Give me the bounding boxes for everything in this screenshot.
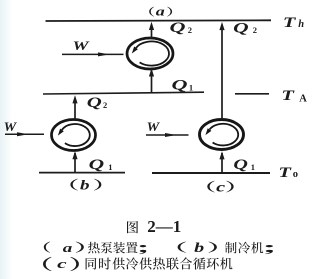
caption paren ( before c: [43, 257, 52, 271]
caption paren ) after a: [76, 242, 84, 253]
caption 热: [153, 257, 165, 269]
label (b) paren right: [94, 179, 101, 191]
caption 图 (figure): [127, 221, 138, 233]
caption 冷: [126, 257, 138, 269]
machine (c) combined heating-cooling cycle circle: [200, 120, 244, 150]
intermediate reservoir TA line right segment: [235, 93, 269, 95]
caption ；: [139, 245, 146, 254]
svg-text:c: c: [57, 256, 67, 271]
caption 热: [88, 242, 100, 254]
arrow Q2 from machine (a) to Th: [149, 22, 154, 39]
caption 供(2): [139, 257, 151, 269]
svg-text:T: T: [278, 164, 291, 181]
svg-text:Q: Q: [170, 20, 187, 36]
svg-text:W: W: [73, 39, 91, 53]
caption paren ( before b: [178, 242, 186, 253]
label (c) paren right: [226, 181, 233, 193]
svg-text:Q: Q: [87, 95, 103, 111]
caption 同: [86, 258, 97, 270]
svg-text:a: a: [156, 4, 166, 19]
machine (a) heat pump circle: [127, 38, 173, 69]
caption 置: [126, 242, 138, 253]
hot reservoir Th line: [46, 19, 272, 22]
caption paren ) after c: [70, 257, 79, 271]
svg-text:c: c: [216, 180, 225, 195]
label (c) paren left: [207, 181, 214, 193]
caption paren ( before a: [44, 242, 50, 253]
svg-text:1: 1: [108, 162, 112, 172]
svg-text:A: A: [299, 93, 307, 104]
svg-text:h: h: [298, 19, 304, 30]
svg-text:Q: Q: [233, 157, 248, 173]
svg-text:W: W: [147, 120, 160, 134]
arrow Q1 from TA into machine (a): [149, 68, 154, 92]
svg-text:Q: Q: [172, 77, 189, 93]
caption 合: [180, 257, 192, 269]
label (b) paren left: [70, 179, 77, 191]
svg-text:2: 2: [103, 100, 107, 110]
caption ；(second): [265, 245, 273, 254]
cold reservoir T0 line left segment: [39, 172, 125, 174]
caption 装: [113, 242, 125, 254]
caption 循: [193, 257, 205, 269]
arrow W into machine (b): [5, 132, 44, 136]
svg-text:W: W: [4, 120, 18, 134]
arrow W into machine (a): [62, 52, 124, 56]
arrow W into machine (c): [146, 133, 189, 137]
caption 供: [112, 257, 124, 269]
svg-text:a: a: [63, 240, 73, 255]
machine (b) refrigerator circle: [52, 120, 96, 151]
svg-text:o: o: [293, 169, 298, 180]
svg-text:T: T: [281, 88, 295, 104]
caption 冷: [238, 242, 250, 254]
machine (c) combined heating-cooling cycle rotation arrow: [205, 124, 238, 146]
svg-text:b: b: [194, 240, 204, 255]
caption 泵: [101, 242, 113, 254]
svg-text:2—1: 2—1: [147, 217, 181, 236]
label (a) paren left: [149, 7, 154, 17]
svg-text:1: 1: [251, 162, 255, 172]
cold reservoir T0 line right segment: [152, 172, 270, 174]
intermediate reservoir TA line left segment: [43, 92, 204, 94]
svg-text:Q: Q: [89, 157, 105, 173]
caption 联: [166, 257, 178, 269]
svg-text:2: 2: [188, 25, 192, 35]
svg-text:1: 1: [189, 82, 193, 92]
label (a) paren right: [167, 7, 172, 17]
svg-text:2: 2: [253, 25, 257, 35]
machine (b) refrigerator rotation arrow: [58, 124, 90, 146]
arrow Q1 from T0 into machine (b): [72, 151, 77, 172]
caption paren ) after b: [208, 242, 216, 253]
svg-text:T: T: [283, 15, 297, 31]
wire Q2 from machine (c) up to Th: [219, 22, 224, 120]
svg-text:Q: Q: [233, 20, 249, 36]
caption 机: [251, 242, 263, 254]
caption 制: [225, 242, 237, 254]
svg-text:b: b: [80, 178, 90, 193]
caption 机: [220, 257, 232, 269]
caption 环: [207, 258, 219, 270]
machine (a) heat pump rotation arrow: [132, 41, 169, 65]
arrow Q1 from T0 into machine (c): [219, 151, 224, 173]
caption 时: [99, 258, 111, 270]
arrow Q2 from machine (b) to TA: [72, 95, 77, 120]
